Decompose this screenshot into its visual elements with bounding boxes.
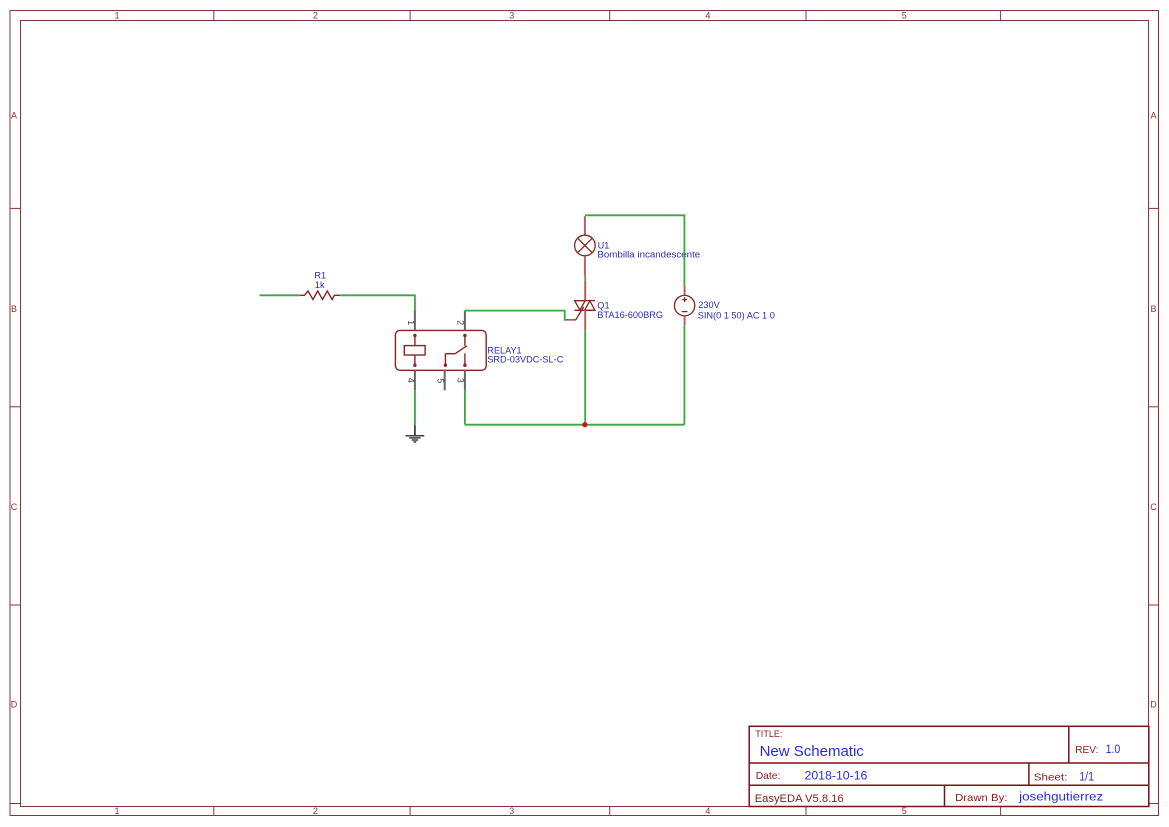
svg-text:5: 5 (902, 11, 907, 21)
wire bottom net rail (465, 424, 685, 426)
value SRD-03VDC-SL-C (487, 354, 563, 364)
value SIN(0 1 50) AC 1 0 (698, 311, 775, 321)
value Bombilla incandescente (597, 250, 700, 260)
junction dot at bottom net (582, 422, 587, 427)
svg-text:1: 1 (114, 11, 119, 21)
svg-text:5: 5 (436, 378, 446, 383)
svg-text:D: D (1150, 700, 1157, 710)
svg-text:B: B (1150, 304, 1156, 314)
label 230V (698, 300, 720, 310)
svg-text:3: 3 (455, 378, 465, 383)
svg-text:B: B (11, 304, 17, 314)
svg-text:EasyEDA V5.8.16: EasyEDA V5.8.16 (755, 793, 844, 805)
wire stub between U1 and Q1 (584, 276, 586, 281)
wire: net at R1 left lead (260, 294, 301, 296)
label Q1 (597, 300, 609, 310)
svg-text:1k: 1k (315, 280, 325, 290)
pin 5 of RELAY1 (436, 370, 446, 390)
svg-text:4: 4 (406, 378, 416, 383)
label R1 (314, 270, 326, 280)
svg-text:BTA16-600BRG: BTA16-600BRG (597, 310, 663, 320)
label RELAY1 (487, 346, 521, 356)
svg-text:1.0: 1.0 (1106, 742, 1121, 756)
wire from R1 to relay pin 1 (340, 295, 415, 310)
pin 3 of RELAY1 (455, 370, 465, 390)
svg-text:2: 2 (313, 806, 318, 816)
svg-text:Date:: Date: (756, 770, 781, 782)
wire Q1 MT1 to bottom rail (584, 330, 586, 425)
svg-text:D: D (11, 700, 18, 710)
resistor R1 (300, 291, 340, 300)
value 1k (315, 280, 325, 290)
svg-text:SIN(0 1 50) AC 1 0: SIN(0 1 50) AC 1 0 (698, 311, 775, 321)
svg-text:Sheet:: Sheet: (1034, 772, 1068, 784)
wire V1 to bottom rail (683, 325, 685, 424)
svg-text:3: 3 (509, 11, 514, 21)
svg-text:1: 1 (114, 806, 119, 816)
pin 2 of RELAY1 (455, 311, 465, 331)
svg-text:New Schematic: New Schematic (760, 743, 865, 760)
svg-text:2018-10-16: 2018-10-16 (805, 768, 868, 782)
svg-text:C: C (11, 502, 18, 512)
label U1 (598, 240, 610, 250)
svg-text:3: 3 (509, 806, 514, 816)
svg-text:1: 1 (406, 320, 416, 325)
svg-text:A: A (1150, 111, 1156, 121)
svg-text:4: 4 (705, 806, 710, 816)
svg-text:TITLE:: TITLE: (755, 729, 782, 740)
wire relay pin 3 to bottom net (464, 389, 466, 425)
svg-text:REV:: REV: (1075, 745, 1098, 756)
wire relay pin 2 to Q1 gate (465, 311, 567, 320)
pin 1 of RELAY1 (406, 311, 416, 331)
svg-text:1/1: 1/1 (1079, 770, 1094, 784)
svg-text:A: A (11, 111, 17, 121)
svg-text:Q1: Q1 (597, 300, 609, 310)
svg-text:2: 2 (455, 320, 465, 325)
pin 4 of RELAY1 (406, 370, 416, 390)
ground (406, 425, 425, 442)
svg-text:2: 2 (313, 11, 318, 21)
svg-text:230V: 230V (698, 300, 720, 310)
triac Q1 (567, 280, 596, 330)
svg-text:C: C (1150, 502, 1157, 512)
AC source V1 230V (674, 286, 694, 325)
svg-text:5: 5 (902, 806, 907, 816)
svg-text:R1: R1 (314, 270, 326, 280)
wire relay pin 4 to ground (414, 390, 416, 425)
lamp U1 (575, 216, 596, 275)
value BTA16-600BRG (597, 310, 663, 320)
svg-text:Drawn By:: Drawn By: (955, 793, 1007, 804)
svg-text:josehgutierrez: josehgutierrez (1018, 790, 1103, 804)
wire top rail U1 to V1 (585, 215, 685, 286)
svg-text:SRD-03VDC-SL-C: SRD-03VDC-SL-C (487, 354, 563, 364)
relay RELAY1 body (395, 330, 486, 370)
svg-text:4: 4 (705, 11, 710, 21)
